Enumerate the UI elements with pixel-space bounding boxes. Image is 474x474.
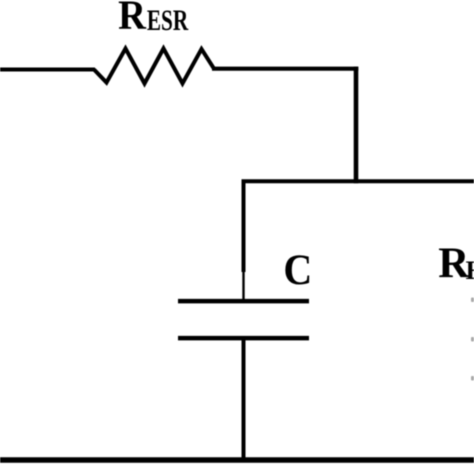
capacitor C bottom plate — [178, 336, 309, 341]
resistor R_ESR — [94, 49, 214, 84]
svg-text:R: R — [118, 0, 147, 38]
resistor R2 zigzag tips (cut off at right edge) — [471, 298, 474, 381]
label R_ESR — [118, 0, 188, 38]
wire left input — [0, 68, 95, 72]
capacitor C top plate — [178, 299, 309, 304]
wire vertical drop to node — [354, 67, 359, 184]
wire capacitor top lead — [242, 180, 246, 273]
wire bottom rail — [0, 457, 474, 462]
wire from resistor to top-right corner and down — [212, 67, 358, 71]
svg-text:ESR: ESR — [147, 4, 189, 37]
wire capacitor top lead (thin lower part) — [242, 271, 244, 301]
label R (parallel resistor, cut off at right edge) — [438, 240, 474, 287]
svg-text:E: E — [466, 256, 474, 285]
wire capacitor bottom lead — [242, 338, 246, 460]
wire node horizontal rail — [242, 179, 474, 183]
svg-text:C: C — [283, 246, 312, 294]
